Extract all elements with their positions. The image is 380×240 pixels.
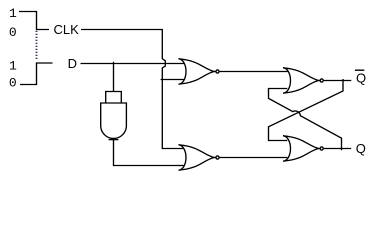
node Qbar overbar <box>355 69 364 71</box>
wire G2 tip to bubble <box>214 157 216 159</box>
wire inverter output to G2 lower input <box>114 140 185 166</box>
wire G1 tip to bubble <box>214 71 216 73</box>
wire Qbar feedback to G4 upper input <box>269 79 344 141</box>
inverter U1 body (bullet) <box>101 103 127 138</box>
switch CLK lever wire <box>19 12 49 30</box>
wire G3 tip to bubble <box>318 80 320 82</box>
svg-text:Q: Q <box>356 70 366 85</box>
svg-text:0: 0 <box>9 75 17 90</box>
NOR gate G2 body <box>179 145 215 170</box>
inverter U1 input box <box>106 92 122 104</box>
wire CLK horizontal run <box>81 29 163 31</box>
NOR gate G4 output bubble <box>320 147 323 150</box>
NOR gate G4 body <box>283 136 319 161</box>
wire CLK branch into G1 lower input <box>161 79 184 81</box>
dotted link between switches <box>36 31 38 60</box>
wire G4 tip to bubble <box>318 148 320 150</box>
NOR gate G1 output bubble <box>216 70 219 73</box>
wire G1 output rail to G3 upper input <box>220 71 288 73</box>
svg-text:0: 0 <box>9 25 17 40</box>
NOR gate G3 output bubble <box>320 79 323 82</box>
wire D branch down to inverter input <box>113 62 115 92</box>
NOR gate G2 output bubble <box>216 156 219 159</box>
NOR gate G3 body <box>283 68 319 93</box>
svg-text:CLK: CLK <box>54 22 80 37</box>
svg-text:D: D <box>68 56 77 71</box>
svg-text:Q: Q <box>356 141 366 156</box>
svg-text:1: 1 <box>9 58 17 73</box>
wire G3 output to Qbar node <box>324 80 351 82</box>
NOR gate G1 body <box>179 59 215 84</box>
switch D lever wire <box>20 63 53 85</box>
wire G2 output rail to G4 lower input <box>220 157 288 159</box>
wire G4 output to Q node <box>324 148 351 150</box>
wire CLK vertical drop with hop over D wire, down to G2 upper input <box>162 30 183 149</box>
svg-text:1: 1 <box>9 6 17 21</box>
wire D horizontal into G1 upper input <box>81 63 184 65</box>
inverter U1 output tick <box>109 139 119 141</box>
wire Q feedback with hop over Qbar feedback, to G3 lower input <box>269 89 342 151</box>
